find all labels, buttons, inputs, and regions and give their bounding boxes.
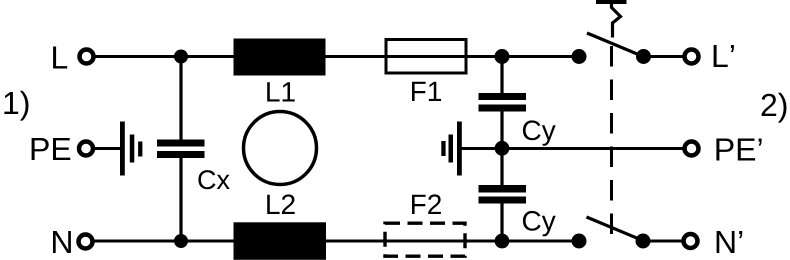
terminal N <box>79 235 93 249</box>
terminal PE' <box>685 142 699 156</box>
ground symbol right (PE earth) <box>441 122 462 176</box>
label L1 <box>267 82 295 101</box>
label Cx <box>198 170 229 189</box>
terminal PE <box>79 142 93 156</box>
capacitor Cy lower <box>479 185 527 204</box>
switch S2 blade <box>587 217 642 240</box>
capacitor Cx <box>157 140 205 159</box>
node junction on L line right <box>495 49 510 64</box>
label Cy lower <box>523 211 556 236</box>
node junction on L line left <box>174 50 188 64</box>
wire from S2 to terminal N' <box>643 240 683 243</box>
wire vertical branch Cy lower <box>500 203 503 241</box>
fuse F2 dashed box <box>385 223 465 256</box>
switch actuator zigzag <box>612 3 621 38</box>
fuse F1 <box>386 40 466 74</box>
label 1) <box>4 91 28 121</box>
switch S1 left contact <box>572 49 587 64</box>
switch linkage dashed line <box>610 46 613 236</box>
wire vertical branch through Cx upper <box>179 57 182 140</box>
switch S2 left contact <box>572 234 587 249</box>
wire vertical branch through Cx lower <box>179 158 182 241</box>
label PE' <box>716 139 761 161</box>
wire vertical branch Cy upper <box>500 57 503 94</box>
wire L line from terminal L to switch <box>94 55 580 58</box>
terminal N' <box>684 234 698 248</box>
core circle of common-mode choke <box>244 112 317 185</box>
inductor L2 <box>234 222 327 259</box>
node junction on N line right <box>495 234 510 249</box>
label N <box>53 231 71 253</box>
switch S1 right contact <box>636 49 651 64</box>
label F1 <box>412 82 441 101</box>
terminal L <box>80 50 94 64</box>
node junction PE <box>495 141 510 156</box>
inductor L1 <box>234 39 326 76</box>
wire vertical branch Cy middle <box>500 112 503 186</box>
wire from S1 to terminal L' <box>643 55 684 58</box>
wire PE line from ground symbol to terminal PE' <box>461 147 684 150</box>
label Cy upper <box>523 120 556 145</box>
switch S1 blade <box>587 33 642 56</box>
label 2) <box>762 93 787 123</box>
terminal L' <box>685 50 699 64</box>
label L2 <box>267 194 295 214</box>
node junction on N line left <box>174 234 188 248</box>
label N' <box>717 231 743 253</box>
label PE <box>32 138 71 160</box>
switch actuator bar <box>596 0 627 4</box>
label L <box>53 47 67 69</box>
ground symbol left (PE earth) <box>120 122 142 176</box>
label F2 <box>412 194 441 214</box>
switch S2 right contact <box>636 234 651 249</box>
capacitor Cy upper <box>479 93 527 112</box>
wire N line from terminal N to switch <box>93 240 580 243</box>
label L' <box>714 45 734 67</box>
wire PE stub from terminal PE <box>94 147 122 150</box>
